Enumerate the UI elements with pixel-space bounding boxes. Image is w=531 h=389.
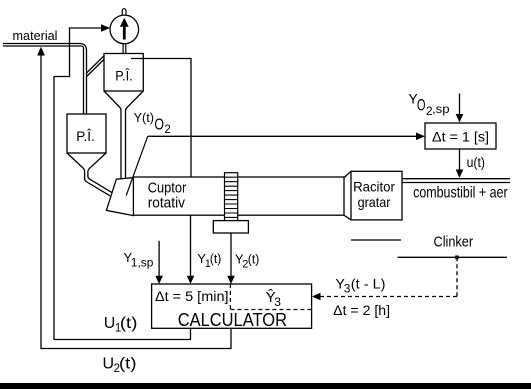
svg-text:P.Î.: P.Î. xyxy=(115,68,132,83)
controller box dt=1s xyxy=(425,123,496,149)
wire fuel+air pipe xyxy=(402,178,510,180)
svg-text:Racitor: Racitor xyxy=(353,179,395,195)
wire fan to hopper1 double line xyxy=(122,44,124,54)
hopper1 funnel and neck xyxy=(104,91,121,179)
sensor housing box under ladder xyxy=(213,221,248,233)
svg-text:,sp: ,sp xyxy=(432,102,450,116)
svg-text:(t): (t) xyxy=(119,356,137,373)
svg-text:3: 3 xyxy=(274,295,281,309)
fan symbol circle xyxy=(110,15,139,44)
svg-text:O: O xyxy=(417,97,426,115)
heat exchanger ladder column xyxy=(225,173,238,222)
hopper P.I. upper box xyxy=(104,54,143,92)
svg-text:Δt = 1 [s]: Δt = 1 [s] xyxy=(432,129,489,144)
svg-text:1,sp: 1,sp xyxy=(131,257,154,269)
svg-text:(t): (t) xyxy=(248,252,260,267)
dashed partition inside calculator xyxy=(229,284,231,310)
wire YO2,sp setpoint arrow xyxy=(459,94,461,119)
wire u(t) output xyxy=(459,149,461,174)
svg-text:O: O xyxy=(154,117,164,134)
wire Y2(t) to calculator xyxy=(230,233,232,280)
wire Y1(t) to calculator xyxy=(190,215,192,280)
svg-text:(t): (t) xyxy=(120,315,137,332)
svg-text:CALCULATOR: CALCULATOR xyxy=(178,310,287,330)
svg-text:Y(t): Y(t) xyxy=(134,111,154,125)
clinker outlet line under cooler xyxy=(351,239,401,241)
wire diagonal feed chute into upper hopper xyxy=(87,55,105,76)
clinker line xyxy=(398,256,508,258)
wire material pipe bottom line xyxy=(3,46,84,114)
svg-text:Δt = 2 [h]: Δt = 2 [h] xyxy=(333,303,390,318)
svg-text:(t - L): (t - L) xyxy=(351,276,386,291)
svg-text:2: 2 xyxy=(164,124,170,136)
svg-text:3: 3 xyxy=(344,282,351,296)
svg-text:Δt = 5 [min]: Δt = 5 [min] xyxy=(155,289,229,304)
wire O2 measurement to controller xyxy=(148,135,417,137)
wire dashed Y3 feedback horizontal xyxy=(317,296,457,298)
svg-text:material: material xyxy=(13,28,58,43)
node fan arrowhead (U1 into fan) xyxy=(101,24,110,31)
wire Y1,sp to calculator xyxy=(158,241,160,280)
wire dashed Y3 feedback vertical xyxy=(456,257,458,296)
wire hopper1 to kiln sensor line xyxy=(131,59,191,178)
fan top stub xyxy=(122,9,126,16)
calculator box xyxy=(152,284,312,328)
wire U2(t) feedback: calculator bottom to material arrow xyxy=(41,55,231,349)
bottom black bar xyxy=(0,383,531,389)
wire material pipe top line xyxy=(3,44,87,115)
svg-text:U: U xyxy=(103,356,115,373)
wire O2 measurement diagonal xyxy=(126,136,148,195)
svg-text:P.Î.: P.Î. xyxy=(76,129,95,144)
svg-text:Cuptor: Cuptor xyxy=(148,181,187,197)
svg-text:Clinker: Clinker xyxy=(434,234,474,250)
svg-text:combustibil + aer: combustibil + aer xyxy=(413,185,508,202)
svg-text:(t): (t) xyxy=(210,251,222,266)
node material arrowhead (U2 into pipe) xyxy=(37,47,45,56)
hopper P.I. lower box xyxy=(67,114,106,153)
svg-text:rotativ: rotativ xyxy=(148,196,186,212)
cooler box Racitor gratar xyxy=(351,171,402,220)
hopper2 funnel and chute to kiln xyxy=(67,153,110,196)
cooler bevel joints xyxy=(344,171,351,177)
svg-text:U: U xyxy=(104,315,116,332)
fan arrow inside xyxy=(123,25,126,40)
svg-text:u(t): u(t) xyxy=(467,155,485,170)
svg-text:gratar: gratar xyxy=(358,194,391,210)
wire U1(t) feedback: calculator bottom to fan arrow xyxy=(54,28,191,340)
kiln body (Cuptor rotativ) xyxy=(133,177,344,215)
kiln inlet slanted end xyxy=(106,178,133,216)
node junction on clinker line xyxy=(455,256,459,260)
